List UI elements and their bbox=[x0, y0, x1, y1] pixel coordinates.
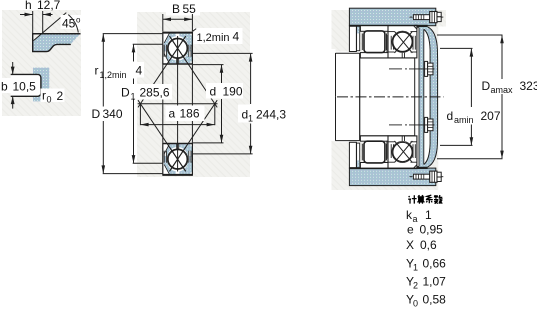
slot detail ring cross-section (blue) bbox=[33, 34, 80, 52]
white text knockouts bbox=[166, 2, 200, 16]
right figure dimensions bbox=[437, 35, 503, 159]
svg-text:1,07: 1,07 bbox=[423, 275, 447, 289]
svg-text:amin: amin bbox=[454, 115, 474, 125]
chamfer 45deg construction line bbox=[34, 13, 67, 41]
part outline bottom/left bbox=[33, 34, 71, 52]
contact diagonals (diamond) bbox=[138, 36, 186, 107]
svg-text:45: 45 bbox=[62, 17, 76, 31]
side extension verticals between sections bbox=[162, 65, 164, 143]
svg-text:e: e bbox=[407, 223, 414, 237]
svg-text:244,3: 244,3 bbox=[256, 108, 286, 122]
svg-text:d: d bbox=[447, 109, 454, 123]
svg-text:340: 340 bbox=[103, 107, 123, 121]
svg-text:0,6: 0,6 bbox=[420, 238, 437, 252]
svg-text:B: B bbox=[172, 2, 180, 16]
svg-text:D: D bbox=[121, 86, 130, 100]
svg-text:1: 1 bbox=[131, 92, 136, 102]
B arrows bbox=[163, 18, 171, 22]
part top surface line bbox=[32, 33, 80, 35]
gray texture zone: left main figure bbox=[137, 12, 250, 177]
svg-text:1: 1 bbox=[425, 208, 432, 222]
d arrows bbox=[220, 65, 224, 73]
bearing top section bbox=[163, 32, 193, 65]
svg-text:amax: amax bbox=[491, 85, 514, 95]
算 bbox=[418, 195, 425, 197]
bearing bottom section (mirrored) bbox=[163, 143, 193, 176]
svg-text:d: d bbox=[210, 85, 217, 99]
b dim arrows bbox=[12, 62, 14, 74]
h dim arrows bbox=[20, 14, 33, 16]
svg-text:207: 207 bbox=[481, 109, 501, 123]
mid horizontal line bbox=[138, 103, 218, 105]
d1 arrows bbox=[249, 53, 253, 61]
h extension line bbox=[42, 11, 44, 34]
计 bbox=[408, 196, 411, 197]
svg-text:12,7: 12,7 bbox=[37, 0, 61, 12]
white area right of cover flange bbox=[438, 27, 447, 191]
D arrows bbox=[102, 34, 106, 42]
svg-text:h: h bbox=[25, 0, 32, 12]
arrowheads bbox=[102, 18, 253, 174]
svg-text:323: 323 bbox=[520, 79, 537, 93]
svg-text:a: a bbox=[169, 107, 176, 121]
gray texture zone: right figure bbox=[332, 10, 447, 190]
a arrows bbox=[140, 123, 148, 127]
white notch left of shaft break line bbox=[332, 49, 336, 141]
left figure dimension texts bbox=[89, 2, 293, 124]
svg-text:285,6: 285,6 bbox=[140, 86, 170, 100]
数 bbox=[434, 195, 438, 199]
svg-text:2: 2 bbox=[57, 89, 64, 103]
slot notch (white) bbox=[11, 74, 41, 96]
系 bbox=[426, 195, 431, 199]
svg-text:D: D bbox=[92, 107, 101, 121]
svg-text:10,5: 10,5 bbox=[13, 80, 37, 94]
svg-text:1: 1 bbox=[248, 114, 253, 124]
B dimension bbox=[162, 14, 164, 32]
D dimension bbox=[103, 33, 163, 35]
center vertical line bbox=[177, 36, 179, 172]
45deg angle arc bbox=[68, 15, 78, 33]
svg-text:1,2min: 1,2min bbox=[100, 70, 127, 80]
D1 dimension bbox=[133, 43, 163, 45]
label b 10,5 bbox=[0, 78, 34, 93]
svg-text:55: 55 bbox=[183, 2, 197, 16]
1,2min leader bbox=[193, 29, 197, 32]
svg-text:X: X bbox=[406, 238, 414, 252]
svg-text:1: 1 bbox=[413, 263, 418, 273]
svg-text:b: b bbox=[1, 80, 8, 94]
svg-text:2: 2 bbox=[413, 281, 418, 291]
svg-text:4: 4 bbox=[136, 64, 143, 78]
svg-text:o: o bbox=[76, 16, 81, 25]
label r0 2 bbox=[41, 89, 65, 103]
svg-text:0: 0 bbox=[413, 299, 418, 309]
D1 arrows bbox=[132, 44, 136, 52]
a dimension drops bbox=[139, 104, 141, 125]
svg-text:0: 0 bbox=[47, 95, 52, 105]
gray texture zone: top-left details bbox=[2, 10, 81, 116]
svg-text:186: 186 bbox=[180, 107, 200, 121]
svg-text:0,66: 0,66 bbox=[423, 257, 447, 271]
label 45deg bbox=[61, 15, 86, 29]
heading 计算系数 drawn as strokes (no CJK font available) bbox=[408, 195, 442, 204]
slot ring segment (blue) bbox=[33, 68, 49, 102]
svg-text:r: r bbox=[42, 89, 46, 103]
svg-text:r: r bbox=[95, 64, 99, 78]
svg-text:190: 190 bbox=[223, 85, 243, 99]
svg-text:1,2min: 1,2min bbox=[197, 32, 230, 44]
svg-text:D: D bbox=[482, 79, 491, 93]
main axis (dash-dot) bbox=[337, 96, 444, 98]
svg-text:0,95: 0,95 bbox=[420, 223, 444, 237]
d1 dimension bbox=[193, 52, 253, 54]
d dimension bbox=[193, 64, 224, 66]
svg-text:0,58: 0,58 bbox=[423, 293, 447, 307]
svg-text:4: 4 bbox=[233, 30, 240, 44]
